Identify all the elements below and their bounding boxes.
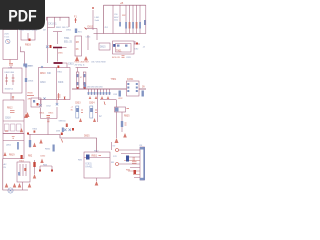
svg-text:+1: +1: [71, 107, 74, 109]
diode BD1: [6, 74, 8, 85]
svg-text:F1: F1: [74, 16, 77, 19]
svg-text:R816 C816 R817: R816 C816 R817: [75, 62, 90, 64]
diode BD2: [12, 74, 14, 85]
resistor bodies on branches: [125, 22, 127, 29]
svg-text:C810: C810: [40, 82, 46, 84]
svg-text:IN: IN: [4, 167, 7, 169]
svg-text:R801 1M C3: R801 1M C3: [56, 27, 69, 29]
wire top-left AC rail: [47, 17, 70, 27]
wire horizontal y28.5: [85, 28, 97, 30]
svg-text:R851: R851: [92, 156, 98, 158]
inductor L832 box: [116, 100, 118, 108]
node red: [29, 39, 31, 42]
svg-text:T801: T801: [116, 50, 122, 53]
svg-text:C813: C813: [86, 37, 92, 39]
svg-text:33K: 33K: [47, 73, 52, 75]
svg-text:D803 D804: D803 D804: [5, 72, 15, 74]
earth circle: [8, 188, 13, 193]
sub row: [3, 120, 24, 122]
wire top-right +B rail: [104, 5, 146, 33]
svg-text:CN: CN: [139, 145, 143, 147]
svg-text:EEL-25: EEL-25: [64, 41, 73, 44]
svg-text:R85: R85: [78, 160, 83, 162]
svg-text:R811: R811: [58, 72, 64, 74]
capacitor CY: [9, 60, 13, 66]
capacitor C822 body: [119, 22, 121, 27]
tick below bus: [62, 139, 63, 143]
capacitor C822 branch: [119, 5, 121, 26]
connector right edge: [143, 147, 145, 180]
wire from box right: [29, 134, 31, 148]
svg-text:R824: R824: [33, 129, 38, 131]
diode D805: [25, 64, 27, 68]
svg-text:R8: R8: [111, 162, 115, 164]
small box right: [99, 43, 110, 50]
ground: [84, 56, 88, 61]
svg-text:IC831: IC831: [86, 164, 93, 166]
svg-text:T3.15: T3.15: [4, 36, 9, 38]
svg-text:220u: 220u: [114, 20, 118, 22]
resistor R813 branch: [40, 100, 42, 119]
svg-text:R82: R82: [122, 15, 125, 17]
wire right of transformer: [134, 43, 140, 45]
svg-text:D83: D83: [56, 131, 61, 133]
svg-text:AC: AC: [4, 163, 7, 166]
resistor R822 branch: [129, 5, 131, 33]
node tick: [85, 28, 87, 30]
capacitor C820: [47, 116, 51, 118]
wires below: [117, 112, 123, 138]
node tick red: [92, 7, 94, 9]
svg-text:BCK-28: BCK-28: [112, 57, 120, 59]
verticals mid: [87, 35, 89, 50]
node dot: [136, 43, 138, 45]
svg-text:D82: D82: [135, 49, 140, 51]
svg-text:SS8550: SS8550: [59, 121, 67, 123]
svg-text:35: 35: [71, 110, 74, 112]
svg-text:IC801: IC801: [127, 78, 134, 81]
svg-text:12V: 12V: [113, 156, 117, 158]
secondary ground rail: [72, 88, 146, 90]
capacitor C825: [12, 137, 15, 139]
svg-text:R815: R815: [49, 113, 55, 115]
svg-text:08: 08: [76, 49, 79, 51]
cap above: [12, 96, 14, 100]
ground below: [96, 178, 98, 181]
wire stub top: [10, 66, 12, 100]
svg-text:C828: C828: [126, 57, 132, 59]
diode D822 branch: [139, 5, 141, 33]
PDF badge: [0, 0, 45, 30]
cluster above bus: [64, 129, 67, 132]
grounds row: [5, 183, 9, 188]
wire vertical x93: [92, 10, 94, 30]
EMI box K1: [3, 30, 18, 60]
wire bottom bus y33.5: [94, 33, 147, 35]
regulator IC831 box: [84, 152, 110, 178]
svg-text:400V: 400V: [114, 17, 119, 19]
capacitor C824 branch: [136, 5, 138, 33]
connector end caps: [140, 147, 145, 150]
svg-text:D806: D806: [28, 81, 34, 83]
svg-text:C812: C812: [46, 106, 52, 108]
svg-text:250V: 250V: [4, 34, 9, 36]
svg-text:R842: R842: [45, 149, 51, 151]
svg-text:D835: D835: [84, 136, 90, 138]
diode D802: [23, 64, 25, 67]
ground (hot): [24, 113, 28, 118]
svg-text:C842: C842: [40, 156, 46, 158]
5V line stub: [111, 142, 113, 150]
svg-text:KA431: KA431: [86, 166, 94, 169]
ground right upper: [33, 143, 36, 148]
svg-text:D84 D84 D84 D84: D84 D84 D84 D84: [87, 87, 102, 89]
components on box top: [41, 66, 43, 68]
connector CN801: [140, 147, 145, 180]
svg-text:+B: +B: [120, 1, 124, 5]
wire box bottom: [22, 182, 24, 190]
svg-text:R8: R8: [76, 42, 80, 44]
wire: [57, 49, 59, 62]
svg-text:5V: 5V: [113, 146, 116, 148]
svg-text:C817 D816 R818: C817 D816 R818: [91, 62, 106, 64]
svg-text:R835: R835: [124, 116, 130, 118]
EMI box K2: [21, 30, 35, 41]
svg-text:PDF: PDF: [8, 7, 37, 26]
wire: [96, 29, 98, 34]
ground: [75, 56, 79, 61]
wire joining: [41, 119, 58, 135]
svg-text:R814: R814: [40, 113, 46, 115]
varistor RV801: [75, 29, 77, 34]
svg-text:Q801: Q801: [6, 145, 12, 147]
wire L jog: [21, 47, 25, 64]
small box x31-41: [31, 98, 41, 107]
svg-text:0M: 0M: [43, 30, 46, 32]
standby box: [3, 134, 24, 159]
comb rectifiers: [89, 89, 110, 95]
wire: [57, 32, 59, 44]
svg-text:2W 470p 1k: 2W 470p 1k: [75, 64, 85, 66]
svg-text:IC: IC: [80, 77, 83, 79]
svg-text:D805: D805: [28, 66, 34, 68]
svg-text:C818: C818: [5, 118, 11, 120]
svg-text:R82: R82: [28, 156, 33, 158]
bridge rectifier box: [3, 68, 22, 93]
wire y99.5 right: [100, 99, 116, 101]
capacitor C823 branch: [132, 5, 134, 33]
svg-text:12: 12: [99, 116, 102, 118]
ground right of box3: [20, 128, 23, 132]
divider: [56, 68, 58, 100]
svg-text:D805: D805: [58, 53, 64, 55]
svg-text:CX1 0.1: CX1 0.1: [48, 23, 57, 26]
parts between: [126, 156, 129, 162]
svg-text:D801: D801: [66, 30, 72, 32]
svg-text:2mH: 2mH: [95, 20, 100, 22]
cluster lower-left of bus: [39, 139, 42, 144]
wire node drop X801: [47, 17, 61, 27]
component x34: [34, 160, 36, 174]
svg-text:1N4007x4: 1N4007x4: [5, 89, 14, 91]
transformer T801 box: [113, 41, 135, 54]
svg-text:4R7: 4R7: [28, 99, 33, 101]
svg-text:R803: R803: [25, 44, 31, 47]
svg-text:C834: C834: [89, 103, 95, 105]
capacitor C819 branch: [56, 100, 58, 119]
caps beside IC: [119, 91, 121, 97]
main bus to secondary: [28, 135, 97, 153]
transistor Q802: [62, 128, 64, 133]
svg-text:TH81: TH81: [111, 79, 117, 81]
svg-text:L801: L801: [95, 17, 101, 19]
snubber cluster: [47, 17, 49, 63]
wire right edge: [145, 5, 147, 33]
diode D812 red mark: [64, 97, 65, 100]
svg-text:R819: R819: [9, 155, 15, 157]
cap at box bottom: [57, 93, 60, 100]
svg-text:T802: T802: [19, 161, 25, 163]
wire long vertical x26: [25, 63, 27, 113]
ground right of box: [26, 112, 30, 117]
ground: [115, 138, 119, 143]
svg-text:+B: +B: [143, 47, 146, 49]
plug symbol: [6, 39, 10, 43]
bracket bottom: [40, 166, 52, 170]
left rail bottom: [3, 159, 28, 191]
node tick above rail: [84, 83, 86, 89]
svg-text:C83: C83: [113, 94, 118, 96]
wire x97.5 down: [97, 89, 99, 122]
capacitor C802: [46, 46, 49, 49]
narrow box R808: [75, 36, 82, 56]
diode D806: [25, 78, 27, 82]
svg-text:C815: C815: [68, 63, 74, 66]
thick winding mark 2: [54, 62, 63, 64]
svg-text:R806: R806: [28, 93, 34, 95]
svg-text:ZD1: ZD1: [105, 27, 109, 29]
svg-text:C90: C90: [114, 14, 117, 16]
resistor R802: [53, 31, 62, 33]
svg-text:330K: 330K: [58, 82, 64, 84]
svg-text:D815: D815: [100, 47, 106, 49]
divider: [3, 140, 24, 142]
jumper circles: [116, 149, 119, 152]
capacitor C821 branch: [112, 5, 114, 33]
primary box: [39, 68, 71, 100]
IC801: [127, 81, 140, 96]
left regulator box: [3, 100, 24, 134]
thick winding mark 1: [53, 47, 62, 49]
svg-text:R810: R810: [40, 73, 46, 75]
svg-text:L832: L832: [118, 98, 123, 100]
ground mid: [123, 133, 127, 138]
svg-text:09: 09: [142, 87, 145, 89]
opto couplers: [76, 67, 89, 69]
svg-text:R812: R812: [7, 108, 13, 110]
fuse F801: [75, 18, 77, 23]
bottom-left transformer box: [17, 162, 30, 182]
svg-text:D811: D811: [88, 26, 94, 29]
svg-text:RV1: RV1: [78, 32, 82, 34]
capacitor: [121, 121, 123, 127]
svg-text:C833: C833: [75, 103, 81, 105]
resistor R821 branch: [125, 5, 127, 33]
